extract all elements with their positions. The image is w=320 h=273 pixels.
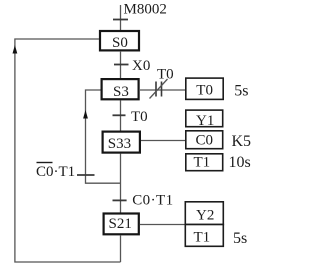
transition bar C̄0·T1 bbox=[77, 174, 95, 176]
wire S3 to S33 bbox=[120, 101, 122, 131]
label 5s top bbox=[234, 83, 248, 100]
state box S33 bbox=[103, 132, 140, 153]
svg-text:C0: C0 bbox=[196, 133, 214, 149]
wire S0 to S3 bbox=[120, 51, 122, 78]
state box S0 bbox=[100, 31, 139, 51]
wire inner return branch bbox=[86, 90, 121, 183]
action box T1 bottom bbox=[185, 225, 223, 247]
label T0 contact bbox=[157, 67, 174, 83]
wire outer return loop bbox=[15, 39, 121, 262]
svg-text:M8002: M8002 bbox=[124, 2, 167, 18]
action box Y2 bbox=[185, 202, 223, 225]
svg-text:T0: T0 bbox=[131, 109, 148, 125]
svg-text:S0: S0 bbox=[112, 35, 128, 51]
svg-text:Y1: Y1 bbox=[196, 113, 214, 129]
svg-text:5s: 5s bbox=[234, 83, 248, 100]
label K5 bbox=[232, 133, 252, 150]
label C0·T1 bbox=[132, 193, 173, 209]
svg-text:K5: K5 bbox=[232, 133, 252, 150]
label T0 transition bbox=[131, 109, 148, 125]
svg-text:T1: T1 bbox=[194, 230, 211, 246]
wire S33 to C0 action box bbox=[141, 140, 185, 142]
svg-text:S21: S21 bbox=[109, 216, 132, 232]
svg-text:C0·T1: C0·T1 bbox=[36, 164, 75, 180]
svg-text:10s: 10s bbox=[229, 154, 251, 171]
wire S3 to T0 action box bbox=[140, 89, 185, 91]
wire S21 to bottom rail bbox=[120, 235, 122, 262]
svg-text:5s: 5s bbox=[233, 230, 247, 247]
label X0 bbox=[132, 58, 150, 74]
transition bar T0 bbox=[113, 114, 126, 116]
label 5s bottom bbox=[233, 230, 247, 247]
svg-text:T0: T0 bbox=[196, 83, 213, 99]
arrow outer loop up bbox=[13, 45, 18, 54]
svg-text:S33: S33 bbox=[108, 136, 131, 152]
action box Y1 bbox=[186, 110, 223, 129]
action box T0 bbox=[186, 78, 223, 99]
arrow inner branch up bbox=[83, 110, 88, 119]
wire S33 to S21 bbox=[120, 154, 122, 213]
transition bar C0·T1 bbox=[113, 199, 127, 201]
transition bar M8002 bbox=[113, 19, 128, 21]
action box T1 bbox=[186, 154, 223, 171]
label M8002 bbox=[124, 2, 167, 18]
state box S3 bbox=[102, 79, 139, 100]
transition bar X0 bbox=[114, 64, 129, 66]
svg-text:X0: X0 bbox=[132, 58, 150, 74]
wire main vertical top bbox=[120, 5, 122, 30]
svg-text:C0·T1: C0·T1 bbox=[132, 193, 173, 209]
wire S21 to Y2/T1 action boxes bbox=[140, 224, 185, 226]
label 10s bbox=[229, 154, 251, 171]
label C̄0·T1 with overline bbox=[36, 163, 75, 181]
svg-text:T0: T0 bbox=[157, 67, 174, 83]
action box C0 bbox=[186, 131, 223, 149]
svg-text:T1: T1 bbox=[194, 155, 211, 171]
svg-text:S3: S3 bbox=[113, 84, 129, 100]
svg-text:Y2: Y2 bbox=[196, 208, 214, 224]
state box S21 bbox=[104, 214, 139, 235]
contact NC T0 bbox=[150, 79, 168, 99]
